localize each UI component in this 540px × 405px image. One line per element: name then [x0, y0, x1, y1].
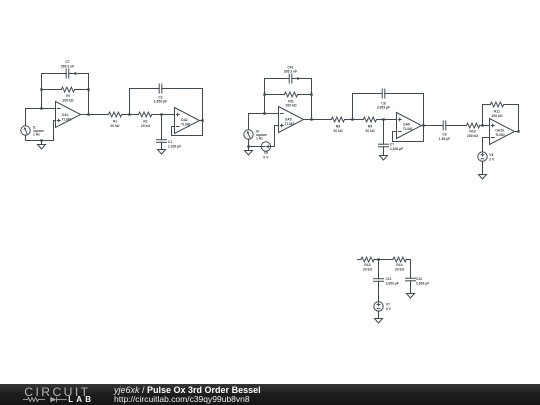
junction — [40, 107, 42, 109]
svg-text:R8: R8 — [336, 125, 340, 129]
wire — [42, 89, 62, 91]
op-amp OA2 — [175, 108, 200, 134]
svg-text:1.59 µF: 1.59 µF — [439, 137, 450, 141]
wire OA10 output — [515, 131, 519, 133]
resistor R9 — [363, 117, 376, 133]
svg-text:OA6: OA6 — [403, 123, 410, 127]
svg-text:200 kΩ: 200 kΩ — [62, 99, 73, 103]
op-amp OA1 — [56, 102, 81, 128]
svg-text:V8: V8 — [489, 153, 493, 157]
svg-text:R2: R2 — [143, 120, 147, 124]
svg-text:TL081: TL081 — [285, 122, 295, 126]
wire — [345, 119, 364, 121]
wire — [385, 93, 424, 95]
svg-text:20 kΩ: 20 kΩ — [395, 267, 405, 271]
resistor R8 — [331, 117, 344, 133]
resistor R1 — [109, 112, 122, 128]
svg-text:OA2: OA2 — [181, 118, 188, 122]
current source I4 — [244, 129, 267, 140]
wire OA2 feedback loop — [172, 89, 203, 136]
wire feedback right vertical — [311, 79, 313, 120]
current direction arrow — [297, 77, 300, 80]
wire OA10 inverting input to V8 — [483, 138, 490, 152]
ground — [158, 150, 166, 155]
svg-text:C7: C7 — [390, 143, 394, 147]
svg-text:20 kΩ: 20 kΩ — [110, 124, 120, 128]
op-amp OA10 — [490, 119, 515, 145]
svg-text:0 V: 0 V — [263, 155, 269, 159]
capacitor C12 — [406, 277, 430, 285]
wire I4 bottom to V5 — [249, 139, 262, 146]
wire — [162, 88, 203, 90]
capacitor C9 — [439, 121, 450, 141]
wire C7 branch — [383, 120, 385, 145]
svg-text:1,326 pF: 1,326 pF — [168, 144, 181, 148]
voltage source V8 — [478, 152, 495, 162]
svg-text:200 kΩ: 200 kΩ — [285, 104, 296, 108]
junction — [263, 93, 265, 95]
wire OA5 output — [304, 119, 332, 121]
wire C8 branch vertical — [352, 94, 354, 120]
wire V8 to ground — [482, 161, 484, 174]
junction — [40, 139, 42, 141]
svg-text:2,653 pF: 2,653 pF — [154, 100, 167, 104]
resistor R13 — [361, 257, 374, 271]
svg-text:2 V: 2 V — [489, 158, 495, 162]
wire — [374, 259, 393, 261]
wire — [265, 94, 285, 96]
svg-text:LAB: LAB — [68, 395, 94, 404]
wire — [480, 125, 490, 127]
junction — [382, 118, 384, 120]
wire — [446, 125, 467, 127]
wire — [265, 78, 290, 80]
ground — [245, 147, 253, 156]
current source I1 — [21, 125, 44, 136]
resistor R14 — [393, 257, 406, 271]
resistor R10 — [467, 123, 480, 138]
svg-text:TL081: TL081 — [181, 123, 191, 127]
wire feedback right vertical — [518, 105, 520, 132]
svg-text:1,326 µF: 1,326 µF — [390, 147, 403, 151]
wire — [42, 73, 67, 75]
wire OA2 output — [200, 120, 203, 122]
svg-text:C1: C1 — [168, 140, 172, 144]
svg-text:20 kΩ: 20 kΩ — [333, 129, 343, 133]
capacitor C2 — [154, 84, 167, 104]
ground — [375, 319, 383, 324]
junction — [351, 118, 353, 120]
junction — [201, 119, 203, 121]
svg-text:C12: C12 — [416, 277, 422, 281]
svg-text:265.3 nF: 265.3 nF — [284, 70, 297, 74]
wire V7 to ground — [378, 311, 380, 318]
junction — [160, 113, 162, 115]
wire OA1 noninverting input — [26, 121, 56, 141]
svg-text:0 V: 0 V — [386, 307, 392, 311]
wire feedback left vertical — [264, 79, 266, 114]
wire — [406, 260, 410, 279]
wire — [122, 114, 139, 116]
wire feedback right vertical — [88, 74, 90, 115]
wire — [410, 281, 412, 294]
svg-text:C11: C11 — [386, 277, 392, 281]
CircuitLab logo schematic squiggle — [23, 397, 67, 402]
svg-text:2,653 µF: 2,653 µF — [377, 106, 390, 110]
svg-text:265.3 nF: 265.3 nF — [61, 64, 74, 68]
wire — [152, 114, 175, 116]
junction — [87, 113, 89, 115]
capacitor C1 — [157, 140, 182, 149]
svg-text:OA10: OA10 — [495, 129, 504, 133]
wire I1 to OA1 inverting input — [26, 109, 56, 126]
wire — [292, 78, 312, 80]
svg-text:TL081: TL081 — [403, 127, 413, 131]
wire C2 branch vertical — [129, 89, 131, 115]
svg-text:1 Hz: 1 Hz — [256, 137, 263, 141]
svg-text:200 kΩ: 200 kΩ — [467, 134, 478, 138]
svg-text:OA5: OA5 — [285, 118, 292, 122]
op-amp OA6 — [397, 113, 422, 139]
wire — [75, 89, 89, 91]
svg-text:20 kΩ: 20 kΩ — [363, 267, 373, 271]
resistor R2 — [139, 112, 152, 128]
footer text — [114, 386, 261, 405]
svg-text:R10: R10 — [469, 130, 475, 134]
wire — [504, 104, 519, 106]
capacitor C7 (middle) — [379, 143, 404, 151]
junction — [310, 118, 312, 120]
junction — [263, 112, 265, 114]
wire — [298, 94, 312, 96]
junction — [481, 124, 483, 126]
junction — [377, 258, 379, 260]
wire OA5 noninverting input to V5 — [271, 126, 279, 147]
svg-text:R14: R14 — [396, 263, 402, 267]
wire C11 branch — [378, 260, 380, 279]
wire — [353, 93, 383, 95]
svg-text:20 kΩ: 20 kΩ — [365, 129, 375, 133]
svg-text:OA1: OA1 — [62, 113, 69, 117]
capacitor C11 — [374, 277, 399, 285]
voltage source V5 — [261, 142, 270, 160]
wire feedback left vertical — [41, 74, 43, 109]
ground — [38, 141, 46, 150]
svg-text:R11: R11 — [494, 110, 500, 114]
wire OA6 output — [422, 125, 444, 127]
svg-text:TL081: TL081 — [62, 117, 72, 121]
junction — [87, 88, 89, 90]
wire — [130, 88, 160, 90]
svg-text:V7: V7 — [386, 302, 390, 306]
wire C1 branch — [161, 115, 163, 140]
svg-text:Rf: Rf — [66, 94, 70, 98]
junction — [310, 93, 312, 95]
junction — [128, 113, 130, 115]
wire — [69, 73, 89, 75]
wire I4 to OA5 inverting input — [249, 114, 279, 130]
current direction arrow — [75, 72, 78, 75]
wire OA6 feedback loop — [393, 94, 424, 142]
svg-text:200 kΩ: 200 kΩ — [491, 114, 502, 118]
svg-text:TL081: TL081 — [495, 133, 505, 137]
wire — [483, 104, 491, 106]
svg-text:2,653 µF: 2,653 µF — [416, 281, 429, 285]
resistor R11 — [490, 102, 503, 118]
wire input stub — [358, 259, 362, 261]
junction — [247, 145, 249, 147]
op-amp OA5 — [279, 107, 304, 133]
svg-text:1 Hz: 1 Hz — [33, 133, 40, 137]
wire — [377, 119, 397, 121]
resistor Rf — [61, 87, 74, 103]
voltage source V7 — [374, 302, 392, 311]
resistor Rf1 — [284, 92, 297, 108]
ground — [407, 294, 415, 299]
ground — [380, 156, 388, 161]
wire OA1 output — [81, 114, 109, 116]
wire — [161, 142, 163, 149]
svg-text:R13: R13 — [364, 263, 370, 267]
svg-text:Rf1: Rf1 — [288, 99, 294, 103]
junction — [422, 124, 424, 126]
capacitor CF1 — [284, 65, 297, 83]
ground — [479, 175, 487, 180]
wire — [378, 281, 380, 301]
junction — [517, 130, 519, 132]
svg-text:20 kΩ: 20 kΩ — [141, 124, 151, 128]
svg-text:R9: R9 — [368, 125, 372, 129]
capacitor C7 — [61, 60, 74, 78]
wire — [383, 147, 385, 156]
footer bar — [0, 384, 540, 405]
svg-text:2,653 µF: 2,653 µF — [386, 282, 399, 286]
svg-text:R1: R1 — [113, 120, 117, 124]
wire R11 branch vertical — [482, 105, 484, 126]
junction — [40, 88, 42, 90]
capacitor C8 — [377, 89, 390, 110]
